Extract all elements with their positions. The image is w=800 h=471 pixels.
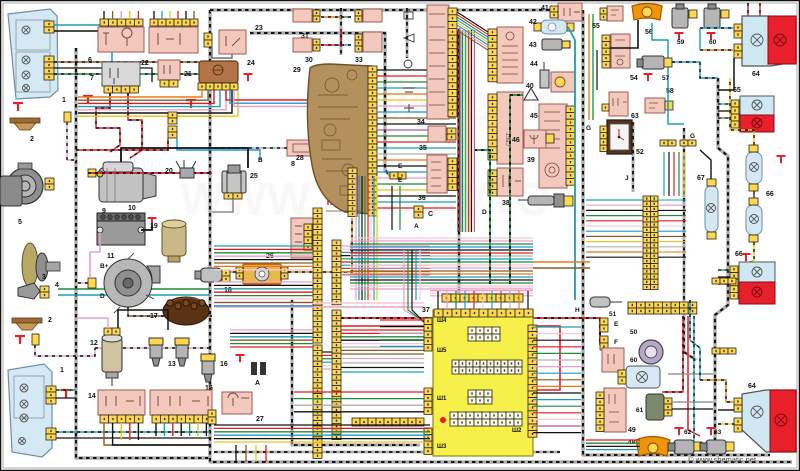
svg-text:E: E — [614, 321, 619, 328]
svg-text:3: 3 — [42, 274, 46, 281]
wire battery ground — [141, 222, 152, 230]
power 66c — [742, 254, 751, 261]
wire 26 left — [212, 271, 236, 273]
wire starter black — [121, 148, 248, 168]
switch 36 — [427, 155, 447, 193]
connector 67 pins — [707, 179, 716, 186]
bundle ladderB low right — [341, 329, 430, 331]
lamp box 26 — [243, 264, 281, 284]
connector pair K — [168, 112, 177, 124]
wire horn pink drop — [67, 122, 76, 160]
connector 18 — [222, 270, 230, 282]
svg-text:60: 60 — [709, 39, 717, 46]
connector 38 pins — [488, 170, 497, 196]
wire headlight1 black — [54, 31, 104, 40]
wire 64t wires — [718, 58, 734, 90]
relay 49 — [604, 388, 626, 432]
svg-text:33: 33 — [355, 57, 363, 64]
warning triangle — [524, 88, 538, 100]
switch 46 — [524, 130, 546, 148]
switch block 39 — [497, 92, 523, 164]
icons 34 margin — [403, 12, 415, 112]
svg-text:1: 1 — [62, 97, 66, 104]
teal jumper tall — [568, 27, 575, 300]
connector A pins — [251, 362, 257, 375]
repeater 65 — [740, 96, 774, 115]
svg-text:45: 45 — [530, 113, 538, 120]
fuse 51 — [590, 297, 622, 307]
svg-text:35: 35 — [419, 145, 427, 152]
connector 60t pin — [721, 10, 729, 18]
svg-text:60: 60 — [630, 357, 638, 364]
bundle 34 to 40 verticals — [457, 30, 459, 232]
connector 63b pin — [726, 442, 734, 451]
svg-text:64: 64 — [748, 383, 756, 390]
connector 62 pin — [694, 442, 702, 451]
power tap 24 — [244, 74, 253, 81]
bundle below26 horizontals — [230, 329, 313, 331]
svg-text:C: C — [428, 211, 433, 218]
svg-text:Ш3: Ш3 — [437, 444, 447, 450]
bundle right verticals — [663, 152, 665, 196]
wire trunk right mid — [684, 128, 696, 360]
starter 9 — [97, 162, 156, 202]
connector 66c pins — [730, 266, 738, 299]
distributor 17 module — [163, 297, 209, 325]
connector 40 pins — [488, 29, 497, 82]
wire starter red — [88, 172, 212, 174]
wire trunk bottom second — [214, 451, 560, 454]
switch 35 — [428, 126, 446, 142]
sensor 42 — [540, 20, 568, 34]
connector ecu left ladder c — [424, 428, 432, 454]
wire teal dashed right — [693, 316, 695, 446]
svg-text:30: 30 — [305, 57, 313, 64]
svg-text:46: 46 — [512, 137, 520, 144]
solenoid 63b — [700, 440, 726, 454]
wire trunk column bundle — [457, 28, 460, 300]
svg-text:1: 1 — [60, 367, 64, 374]
wire 12 black — [118, 310, 168, 330]
connector 57 pin — [664, 58, 672, 67]
svg-text:6: 6 — [88, 57, 92, 64]
connector relay22 pins — [150, 19, 198, 26]
wire 15 drops — [155, 423, 157, 436]
connector 41 pin — [550, 6, 558, 18]
relay 21 — [158, 60, 180, 80]
clock 52 — [607, 120, 632, 154]
svg-text:43: 43 — [529, 42, 537, 49]
connector alternator — [88, 278, 96, 288]
injector 16 — [201, 354, 215, 382]
svg-text:B+: B+ — [100, 263, 109, 270]
wire trunk mid-right vertical — [583, 10, 770, 455]
svg-text:F: F — [614, 339, 618, 346]
connector 66b pins — [749, 198, 758, 205]
svg-text:D: D — [100, 293, 105, 300]
heated rear relay 56 — [632, 4, 662, 21]
connector ladder above ecu — [442, 294, 523, 302]
block 8 fuse — [287, 140, 317, 156]
sensor 47 oxygen — [518, 194, 564, 207]
wire alt pink — [89, 252, 91, 278]
svg-text:Ш5: Ш5 — [437, 348, 447, 354]
svg-text:B: B — [258, 157, 263, 164]
wire 64b feeds — [700, 380, 734, 402]
bundle pink above ecu — [430, 287, 533, 289]
connector starter — [88, 169, 96, 177]
bundle ecu top drops — [437, 291, 439, 309]
connector speaker pins — [45, 178, 54, 190]
bundle 34-40 horizontals top — [457, 12, 488, 32]
svg-text:61: 61 — [636, 407, 644, 414]
relay 50b — [602, 348, 624, 372]
ignition coil 20 — [0, 160, 196, 206]
svg-text:D: D — [482, 209, 487, 216]
power 66 — [777, 156, 786, 163]
wire trunk top horizontal — [210, 8, 560, 11]
bundle trunk drops bottom — [235, 445, 237, 462]
svg-text:63: 63 — [714, 429, 722, 436]
power 62 — [675, 428, 684, 435]
svg-text:55: 55 — [592, 23, 600, 30]
sensor 3 speed — [18, 283, 40, 299]
wire headlight2 teal — [56, 431, 210, 433]
ecu inner grid 3 — [468, 390, 492, 404]
svg-text:2: 2 — [48, 317, 52, 324]
wire trunk ecu left drop — [292, 300, 420, 445]
wire battery pink — [90, 233, 100, 252]
orange jumpers — [533, 261, 590, 263]
power tap horn — [13, 103, 23, 111]
connector 33 pins — [355, 34, 362, 52]
solenoid 60t — [704, 4, 720, 28]
relay 14 — [98, 390, 145, 415]
wire trunk left vertical — [76, 48, 210, 458]
wire verticals near 588 — [588, 14, 590, 120]
connector ladder central A — [313, 208, 322, 343]
red jumper wires — [341, 318, 600, 345]
relay 15 — [150, 390, 212, 415]
wire 8 right — [317, 148, 352, 168]
bundle ecu left drops — [404, 250, 424, 322]
connector 26 pins — [236, 267, 243, 279]
connector relay6 pins — [100, 19, 143, 26]
connector 42 pins — [534, 23, 541, 31]
battery 10 — [97, 213, 145, 245]
connector 24 pins — [198, 83, 238, 90]
tail light 64 top — [742, 16, 796, 66]
power tap horn2 — [15, 336, 25, 344]
wire 12 up — [76, 318, 108, 328]
wire K links — [76, 138, 168, 150]
connector ladder right double — [643, 196, 658, 290]
wire 61 grey links — [672, 401, 713, 403]
relay 41 — [558, 3, 582, 21]
connector 58 pin — [665, 101, 673, 110]
svg-text:38: 38 — [502, 200, 510, 207]
headlight 1 bottom-left — [8, 364, 52, 457]
block 66 brake light — [739, 262, 775, 282]
wire headlight2 wires — [56, 389, 76, 391]
power tap headlight2 — [61, 390, 71, 398]
block 24 lighting switch — [199, 61, 238, 83]
relay 55 — [607, 6, 623, 21]
wire 26 right — [288, 218, 352, 272]
connector ecu top ladder — [434, 309, 533, 317]
wire horn2 pink2 — [95, 347, 210, 349]
connector 27 pins — [208, 410, 216, 424]
wire bundle 24 to trunk — [78, 90, 202, 97]
fuel pump 12 — [102, 334, 122, 386]
wire trunk switches drop2 — [406, 8, 409, 58]
connector ladder 25-26 area — [348, 168, 357, 217]
sensor 4 clutch — [22, 243, 38, 287]
tail light 64 bottom — [742, 390, 796, 452]
connector 14 pins — [100, 415, 143, 423]
svg-text:Ш1: Ш1 — [437, 396, 447, 402]
connector 52 pins — [600, 126, 607, 152]
svg-text:22: 22 — [141, 60, 149, 67]
connector 25 — [224, 193, 242, 199]
switch 33 — [363, 32, 382, 52]
connector horn2 pin — [32, 334, 39, 345]
svg-text:62: 62 — [684, 429, 692, 436]
svg-text:44: 44 — [530, 61, 538, 68]
svg-text:17: 17 — [150, 313, 158, 320]
connector 36 pins — [448, 158, 457, 191]
connector small right1 — [712, 348, 736, 354]
svg-text:16: 16 — [220, 361, 228, 368]
bundle ecu left links — [294, 391, 424, 393]
power 57 — [644, 74, 653, 81]
connector headlight2 upper pins — [46, 386, 56, 404]
horn 2 bottom-left — [12, 318, 42, 323]
connector relay21 pins — [160, 80, 178, 87]
connector C pins — [414, 206, 423, 218]
wire headlight2 black — [56, 437, 210, 439]
connector 15 pins — [152, 415, 211, 423]
lamp box 45a — [551, 72, 575, 92]
svg-text:13: 13 — [168, 361, 176, 368]
svg-text:51: 51 — [609, 311, 617, 318]
svg-text:19: 19 — [150, 223, 158, 230]
connector 49 pins — [596, 392, 604, 432]
speaker 5 — [7, 168, 43, 204]
connector headlight1 upper pins — [44, 21, 54, 33]
connector ecu left ladder b — [424, 388, 432, 414]
buzzer 48 — [636, 437, 670, 457]
wire relay22 drops — [153, 11, 155, 19]
svg-text:49: 49 — [628, 427, 636, 434]
relay 23 — [219, 30, 246, 54]
svg-text:28: 28 — [296, 155, 304, 162]
wire alt pink2 — [76, 282, 88, 284]
svg-text:4: 4 — [55, 282, 59, 289]
svg-text:H: H — [575, 307, 580, 314]
solenoid 57 — [637, 56, 664, 69]
svg-text:7: 7 — [90, 75, 94, 82]
svg-text:67: 67 — [697, 175, 705, 182]
switch 63 — [609, 92, 628, 116]
svg-text:Ш4: Ш4 — [437, 318, 447, 324]
svg-text:24: 24 — [247, 60, 255, 67]
svg-text:21: 21 — [184, 71, 192, 78]
svg-text:54: 54 — [630, 75, 638, 82]
svg-text:5: 5 — [18, 219, 22, 226]
block 38 — [497, 168, 523, 196]
svg-text:37: 37 — [422, 307, 430, 314]
resistor 61 — [646, 394, 664, 420]
injector 13b — [175, 338, 189, 366]
connector ladder near 51 — [628, 302, 697, 314]
bundle mid-left horizontals — [214, 245, 313, 247]
wire 8 left — [212, 147, 287, 149]
svg-text:36: 36 — [418, 195, 426, 202]
bundle right ladder out — [658, 199, 686, 201]
connector 47 pin — [564, 196, 573, 206]
connector 28 pins — [304, 224, 312, 250]
svg-text:64: 64 — [752, 71, 760, 78]
bundle right low horizontals — [586, 439, 640, 441]
power tap 21 — [186, 100, 196, 108]
injector 13a — [149, 338, 163, 366]
connector ecu left ladder a — [424, 318, 432, 351]
connector B F pins — [600, 318, 608, 332]
svg-text:18: 18 — [224, 287, 232, 294]
connector 39 pins — [488, 94, 497, 160]
mirror block 58 — [645, 98, 665, 113]
wire relay7 red loops — [96, 93, 120, 152]
wire red verticals right — [662, 316, 683, 392]
wire 65 wires — [718, 103, 731, 105]
connector 64b pins — [734, 398, 742, 412]
bundle right of ladderB — [341, 245, 430, 247]
sensor 43 — [542, 39, 570, 50]
connector 61 pins — [664, 398, 672, 416]
svg-text:E: E — [398, 177, 403, 184]
bundle ladderA to ladderB — [322, 351, 332, 353]
ignition module 27 — [222, 392, 252, 414]
connector ladder central A2 — [313, 345, 322, 458]
svg-text:14: 14 — [88, 393, 96, 400]
alternator 11 — [104, 253, 160, 313]
wire bundle 24 right — [226, 90, 328, 205]
wire trunk main vertical — [210, 10, 792, 462]
svg-text:23: 23 — [255, 25, 263, 32]
connector 45 pins — [566, 106, 575, 185]
connector headlight1 lower pins — [44, 56, 54, 80]
svg-text:59: 59 — [677, 39, 685, 46]
connector 55 pins — [600, 8, 607, 20]
connector 32 pins — [355, 10, 362, 22]
wire headlight1 teal — [54, 25, 112, 62]
lamp 66b — [746, 205, 762, 235]
wire 64 top feeds — [747, 3, 749, 16]
switch 30 — [293, 38, 312, 52]
switch 32 — [363, 9, 382, 22]
svg-text:J: J — [625, 175, 629, 182]
wire horn2 pink — [35, 345, 95, 356]
switch 31 — [293, 9, 312, 22]
svg-text:E: E — [398, 163, 403, 170]
svg-text:42: 42 — [529, 19, 537, 26]
lamp 67 — [705, 186, 718, 232]
ecu inner grid 4 — [450, 412, 522, 426]
connector ecu right ladder — [528, 325, 537, 437]
solenoid 62 — [668, 440, 694, 454]
wires 66 67 verticals — [730, 78, 754, 145]
lighter 50 — [639, 340, 663, 364]
svg-text:34: 34 — [417, 119, 425, 126]
wire sensor3 green — [58, 288, 210, 290]
connector 30 pins — [313, 39, 320, 51]
wire trunk right vertical — [715, 78, 728, 452]
connector 60 pins — [618, 370, 626, 384]
wire 25 down — [212, 199, 233, 212]
bundle mid-left lower — [214, 281, 313, 283]
connector E pins — [390, 172, 406, 179]
svg-text:10: 10 — [128, 205, 136, 212]
wire relay6 drops — [103, 11, 105, 19]
svg-text:58: 58 — [666, 88, 674, 95]
block 45 — [539, 104, 567, 188]
svg-text:50: 50 — [630, 329, 638, 336]
svg-text:G: G — [690, 133, 695, 140]
relay 22 — [149, 27, 198, 53]
block 28 sensor — [291, 218, 316, 258]
connector small right2 — [712, 278, 736, 284]
wire headlight1 blk2 — [54, 68, 152, 82]
svg-text:2: 2 — [30, 136, 34, 143]
ecu inner grid 2 — [452, 360, 522, 374]
cluster fanout wires — [377, 69, 456, 71]
svg-text:66: 66 — [766, 191, 774, 198]
connector relay23 pins — [204, 33, 212, 47]
wire 31-32 cross — [321, 16, 341, 18]
connector 35 pin — [447, 128, 456, 140]
connector 66a pins — [749, 145, 758, 152]
wire relay23 loop — [212, 47, 232, 58]
svg-text:20: 20 — [165, 168, 173, 175]
svg-text:11: 11 — [107, 253, 115, 260]
svg-text:12: 12 — [90, 340, 98, 347]
connector 31 pins — [313, 10, 320, 22]
connector cluster pins column — [368, 66, 377, 216]
connector headlight2 lower pins — [46, 428, 56, 440]
power 63b — [707, 428, 716, 435]
bundle bottom horizontals — [214, 424, 430, 426]
solenoid 59 — [672, 4, 688, 28]
svg-text:25: 25 — [250, 173, 258, 180]
connector 59 pin — [689, 10, 697, 18]
connector ladder below ecu — [352, 418, 424, 426]
connector relay7 pins — [104, 86, 138, 93]
power 60t — [707, 33, 716, 40]
svg-text:65: 65 — [733, 87, 741, 94]
connector 65 pins — [731, 100, 739, 128]
svg-text:8: 8 — [291, 161, 295, 168]
svg-text:41: 41 — [541, 5, 549, 12]
wire 14 drops — [104, 423, 210, 445]
connector 34 pins — [448, 8, 457, 117]
relay 6 — [98, 27, 144, 52]
relay 7 — [102, 62, 140, 86]
wire speaker violet — [74, 188, 76, 190]
connector 12 pins — [104, 328, 120, 335]
wire alt brown — [128, 307, 212, 316]
connector sensor3 pins — [40, 286, 49, 298]
